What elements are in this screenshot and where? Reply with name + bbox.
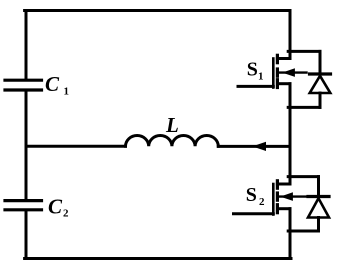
capacitor C1: [5, 80, 42, 90]
wire right rail upper (top rail to S1 drain): [289, 11, 292, 59]
svg-text:C: C: [45, 72, 60, 96]
wire left rail middle (C1 to C2): [25, 92, 28, 200]
transistor S1 drain stub: [277, 57, 290, 60]
transistor S1 channel segments: [276, 55, 279, 87]
transistor S1 source stub: [279, 82, 290, 85]
svg-text:L: L: [165, 113, 179, 137]
transistor S2 channel segments: [276, 181, 279, 213]
svg-text:S: S: [247, 59, 258, 81]
transistor S2 source stub: [279, 207, 290, 210]
wire right rail lower (S2 source to bottom rail): [289, 209, 292, 259]
diode D1 triangle: [310, 76, 331, 93]
wire left rail upper (top rail to C1): [25, 11, 28, 79]
node S1 drain to diode top: [288, 50, 320, 53]
svg-text:C: C: [48, 195, 63, 219]
capacitor C2: [5, 201, 42, 210]
wire left rail lower (C2 to bottom rail): [25, 211, 28, 259]
diode D2 branch vertical bottom: [317, 218, 320, 232]
diode D2 branch vertical top: [317, 177, 320, 195]
svg-text:1: 1: [258, 71, 264, 83]
wire middle right (inductor to right rail): [218, 145, 290, 148]
label C2: [48, 195, 69, 220]
label C1: [45, 72, 69, 98]
transistor S2 gate bar: [272, 184, 275, 215]
transistor S1 body line with arrow: [279, 69, 307, 76]
transistor S2 drain stub: [277, 183, 290, 186]
diode D1 branch vertical top: [319, 51, 322, 72]
svg-text:1: 1: [64, 86, 70, 98]
label S1: [247, 59, 264, 83]
svg-text:2: 2: [63, 208, 69, 220]
svg-text:2: 2: [259, 196, 265, 208]
transistor S1 gate lead: [238, 85, 273, 88]
node S2 source to diode bottom: [288, 230, 318, 233]
diode D1 cathode bar: [310, 72, 331, 75]
wire right rail middle (S1 source to S2 drain): [289, 84, 292, 184]
diode D2 triangle: [308, 198, 329, 217]
wire bottom rail: [25, 257, 291, 260]
label S2: [246, 184, 265, 208]
node S1 source to diode bottom: [288, 106, 320, 109]
inductor L: [126, 136, 219, 147]
diode D1 branch vertical bottom: [319, 93, 322, 107]
svg-text:S: S: [246, 184, 257, 206]
diode D2 cathode bar: [308, 195, 329, 198]
transistor S2 gate lead: [234, 212, 274, 215]
node middle wire junction: [289, 145, 292, 148]
wire middle left (left rail to inductor): [26, 145, 126, 148]
wire top rail: [25, 9, 290, 12]
node S2 drain to diode top: [288, 175, 318, 178]
arrow on middle wire (pointing left): [254, 143, 266, 151]
transistor S1 gate bar: [272, 59, 275, 88]
transistor S2 body line with arrow: [279, 193, 307, 200]
